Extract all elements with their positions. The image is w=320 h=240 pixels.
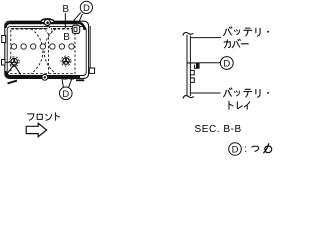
note tsume — [252, 146, 259, 151]
cover top edge / leader — [190, 37, 221, 39]
claw leader — [199, 62, 220, 64]
tray outer wall — [5, 21, 89, 78]
dashed arc left — [31, 29, 43, 74]
tray top hump — [41, 19, 55, 22]
svg-text:SEC. B-B: SEC. B-B — [195, 124, 242, 135]
dashed circle around screw right — [61, 56, 71, 66]
text kaba line2 — [224, 40, 230, 48]
leader D bottom b — [69, 79, 72, 88]
svg-text:D: D — [223, 59, 230, 70]
left side tab — [2, 36, 6, 43]
dashed screw top center — [46, 28, 52, 34]
tray bottom edge / leader — [190, 92, 220, 94]
vent caps row — [11, 44, 74, 49]
cover edge line right — [89, 26, 91, 68]
leader D top b — [78, 14, 83, 25]
text torei line2 — [229, 101, 233, 109]
svg-text:B: B — [63, 32, 70, 43]
text batteri (tray) — [224, 88, 232, 97]
bottom break squiggle — [183, 96, 194, 99]
text batteri (cover) — [224, 27, 232, 36]
left side lug — [2, 60, 6, 66]
tray rib upper — [190, 70, 194, 75]
battery top hatch row — [12, 28, 76, 30]
leader B — [64, 13, 66, 28]
tray bottom-left corner blob — [6, 71, 13, 77]
tray rib lower — [190, 78, 194, 83]
claw section outer — [187, 63, 199, 68]
balloon D note — [229, 143, 242, 156]
balloon D section — [220, 57, 233, 70]
text furonto — [27, 114, 33, 120]
foot tick bottom-left — [8, 81, 18, 84]
screw right — [63, 58, 70, 65]
svg-text:D: D — [62, 89, 69, 100]
svg-text:B: B — [62, 4, 69, 15]
leader D bottom a — [62, 79, 63, 88]
cover wall inner — [189, 36, 191, 97]
claw section cut fill — [196, 63, 199, 68]
bottom-right tick — [76, 79, 84, 81]
right side tab — [89, 68, 94, 73]
tray inner wall — [7, 27, 86, 76]
claw tab 2 — [69, 76, 74, 79]
dashed arc right — [44, 29, 56, 74]
svg-text:D: D — [232, 145, 239, 156]
tray top-right corner blob — [76, 22, 85, 30]
bracket legs bottom-left — [6, 65, 20, 75]
front arrow — [26, 123, 46, 136]
grommet bottom — [42, 74, 48, 80]
tray top edge thick rim — [10, 21, 77, 24]
svg-text:D: D — [83, 3, 90, 14]
left lug link line — [5, 61, 12, 64]
dashed center line — [48, 29, 50, 74]
grommet top — [44, 19, 50, 25]
tray top-left corner blob — [6, 23, 13, 28]
top break squiggle — [183, 32, 193, 35]
claw tab 1 — [63, 76, 68, 79]
balloon D top — [80, 1, 92, 13]
screw left — [11, 58, 18, 65]
balloon D bottom — [60, 87, 73, 100]
leader D top a — [74, 13, 81, 21]
battery dashed outline — [11, 28, 75, 73]
clip top-right — [72, 25, 79, 33]
dashed circle around screw left — [9, 57, 19, 67]
tray bottom edge thick rim — [10, 76, 80, 79]
cover wall outer — [186, 35, 188, 97]
svg-text::: : — [244, 144, 247, 155]
